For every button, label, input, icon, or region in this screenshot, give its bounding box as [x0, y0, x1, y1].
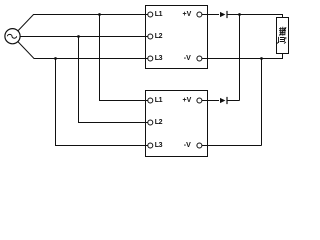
- ac source G1: [5, 29, 20, 44]
- svg-text:L1: L1: [155, 11, 163, 18]
- load label glyph fu (rotated): [277, 37, 286, 44]
- wire PSU1 +V output to diode D1: [199, 14, 219, 16]
- junction phase2 branch: [77, 35, 80, 38]
- svg-text:+V: +V: [183, 11, 192, 18]
- svg-text:+V: +V: [183, 97, 192, 104]
- terminal PS2 L2: [148, 120, 153, 125]
- load box: [277, 18, 289, 54]
- terminal PS2 L3: [148, 143, 153, 148]
- wire diode D2 up to +V rail: [227, 100, 240, 102]
- power supply PS2 box: [146, 91, 208, 157]
- wire top phase from source to PSU1 L1: [18, 15, 150, 31]
- wire diode D1 to load top: [227, 15, 283, 19]
- terminal PS1 L1: [148, 12, 153, 17]
- terminal PS2 L1: [148, 98, 153, 103]
- svg-text:L3: L3: [155, 142, 163, 149]
- svg-text:L2: L2: [155, 33, 163, 40]
- terminal PS1 L3: [148, 56, 153, 61]
- wire branch phase1 down to PSU2 L1: [100, 15, 151, 101]
- junction phase3 branch: [54, 57, 57, 60]
- junction phase1 branch: [98, 13, 101, 16]
- wire PSU2 +V output to diode D2: [199, 100, 219, 102]
- diode D2: [220, 97, 228, 104]
- wire PSU1 -V output to load bottom: [199, 53, 282, 59]
- wire branch phase2 down to PSU2 L2: [79, 37, 151, 123]
- terminal PS2 +V: [197, 98, 202, 103]
- svg-text:-V: -V: [184, 55, 191, 62]
- svg-text:L3: L3: [155, 55, 163, 62]
- svg-text:L1: L1: [155, 97, 163, 104]
- wire PSU2 -V output to -V rail: [199, 145, 261, 147]
- wire bottom phase from source to PSU1 L3: [18, 42, 150, 59]
- terminal PS1 L2: [148, 34, 153, 39]
- wire middle phase from source to PSU1 L2: [20, 36, 150, 38]
- power supply PS1 box: [146, 6, 208, 69]
- junction +V rail: [238, 13, 241, 16]
- svg-text:L2: L2: [155, 119, 163, 126]
- terminal PS1 +V: [197, 12, 202, 17]
- load label glyph zai (rotated): [279, 27, 286, 36]
- wire branch phase3 down to PSU2 L3: [56, 59, 151, 146]
- wire -V paralleling vertical: [261, 59, 263, 146]
- svg-text:-V: -V: [184, 142, 191, 149]
- diode D1: [220, 11, 228, 18]
- wire +V paralleling vertical: [239, 15, 241, 101]
- terminal PS1 -V: [197, 56, 202, 61]
- terminal PS2 -V: [197, 143, 202, 148]
- junction -V rail: [260, 57, 263, 60]
